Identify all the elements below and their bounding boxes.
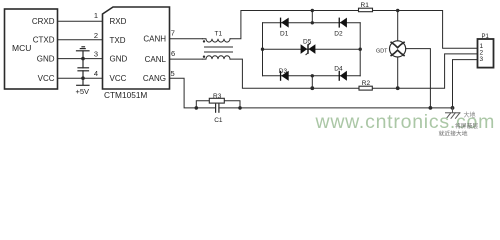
wire GDT center electrode to earth	[406, 49, 431, 108]
wire GND net	[58, 58, 103, 60]
capacitor C1 plates	[216, 104, 219, 112]
node junction bottom rail / bottom branch	[310, 86, 314, 90]
resistor R3 branch	[196, 101, 240, 108]
capacitor decoupling between GND and VCC	[78, 59, 89, 79]
wire CTXD-TXD	[58, 39, 103, 41]
node GND junction	[81, 57, 85, 61]
node junction bottom branch midpoint	[311, 74, 314, 77]
svg-text:T1: T1	[215, 31, 223, 38]
gas discharge tube GDT	[390, 41, 406, 57]
svg-text:将屏蔽层: 将屏蔽层	[455, 122, 478, 130]
svg-text:D3: D3	[279, 68, 288, 75]
wire VCC net	[58, 77, 103, 79]
resistor R2	[359, 86, 372, 90]
wire CANG pin5 to bottom net	[170, 78, 197, 108]
pin numbers P1	[480, 43, 484, 63]
diode bottom branch wire	[263, 75, 361, 77]
resistor R1	[359, 8, 373, 12]
svg-text:5: 5	[171, 69, 175, 78]
transceiver U CTM1051M box	[103, 7, 170, 89]
svg-text:GDT: GDT	[376, 48, 388, 54]
pin numbers CTM right	[171, 29, 176, 79]
svg-text:D2: D2	[334, 30, 343, 37]
svg-text:D4: D4	[334, 65, 343, 72]
pin numbers CTM left	[94, 11, 98, 78]
diode D3	[280, 71, 289, 81]
svg-text:CRXD: CRXD	[32, 17, 55, 26]
svg-text:7: 7	[171, 29, 175, 38]
diode D1	[280, 18, 289, 28]
node earth right junction	[238, 106, 242, 110]
node bottom rail GDT junction	[396, 86, 400, 90]
node junction right rail / middle branch	[359, 48, 362, 51]
node VCC junction	[81, 76, 85, 80]
T1 secondary phase dot	[203, 56, 205, 58]
transformer T1 secondary winding	[202, 56, 230, 59]
node junction top branch midpoint	[311, 21, 314, 24]
svg-text:2: 2	[94, 31, 98, 40]
svg-text:P1: P1	[482, 34, 490, 40]
node junction top rail / top branch	[311, 9, 314, 12]
node earth left junction	[195, 106, 199, 110]
wire earth line	[196, 107, 452, 109]
svg-text:GND: GND	[110, 55, 128, 64]
diode D2	[339, 18, 347, 28]
svg-text:MCU: MCU	[12, 43, 31, 53]
labels CTM right pins	[143, 35, 167, 83]
svg-text:CANG: CANG	[143, 74, 166, 83]
svg-text:+5V: +5V	[76, 87, 90, 96]
wire GDT top electrode	[397, 11, 399, 41]
svg-text:GND: GND	[37, 55, 55, 64]
ground symbol on GND net	[77, 47, 90, 59]
TVS diode D5 bidirectional	[301, 44, 316, 54]
wire top rail after R1	[373, 11, 478, 49]
wire CANH pin7	[170, 38, 203, 40]
svg-text:D1: D1	[280, 30, 289, 37]
svg-text:3: 3	[94, 49, 98, 58]
wire T1 top to CANH top rail	[230, 11, 359, 39]
svg-text:3: 3	[480, 56, 484, 63]
svg-text:VCC: VCC	[38, 74, 55, 83]
diode middle branch wire	[263, 48, 361, 50]
svg-text:CTM1051M: CTM1051M	[104, 90, 147, 100]
transformer T1 core	[205, 46, 233, 48]
diode D4	[339, 71, 347, 81]
wire pin3 riser from earth	[453, 60, 478, 108]
node junction left rail / middle branch	[261, 48, 264, 51]
node earth pin3 junction	[451, 106, 455, 110]
svg-text:CTXD: CTXD	[33, 36, 55, 45]
wire bottom rail after R2 to P1 pin2	[372, 54, 477, 88]
connector P1 box	[478, 39, 494, 68]
wire CANL pin6	[170, 58, 203, 60]
wire stub top rail to top branch	[311, 11, 313, 23]
svg-text:CANH: CANH	[143, 35, 166, 44]
T1 primary phase dot	[203, 40, 205, 42]
power +5V symbol	[77, 78, 89, 85]
svg-text:R1: R1	[361, 2, 370, 9]
wire T1 bottom to CANL bottom rail	[230, 59, 359, 88]
svg-text:TXD: TXD	[110, 36, 126, 45]
diode top branch wire	[263, 22, 361, 24]
svg-text:C1: C1	[214, 117, 223, 124]
labels MCU pins	[32, 17, 55, 83]
transformer T1 primary winding	[202, 39, 230, 42]
svg-text:CANL: CANL	[145, 55, 167, 64]
svg-text:4: 4	[94, 69, 98, 78]
svg-text:就近接大地: 就近接大地	[439, 130, 468, 138]
svg-text:6: 6	[171, 49, 175, 58]
svg-text:R3: R3	[213, 93, 222, 100]
wire CRXD-RXD	[58, 20, 103, 22]
MCU U-left box	[5, 9, 58, 89]
svg-text:1: 1	[94, 11, 98, 20]
wire GDT bottom electrode	[397, 57, 399, 88]
chassis earth symbol	[446, 108, 461, 118]
wire stub bottom branch to bottom rail	[311, 76, 313, 88]
svg-text:大地: 大地	[464, 111, 476, 119]
node top rail GDT junction	[396, 9, 399, 12]
node earth line GDT junction	[429, 106, 433, 110]
svg-text:R2: R2	[362, 80, 371, 87]
svg-text:D5: D5	[303, 38, 312, 45]
diode network right rail	[359, 23, 361, 76]
svg-text:VCC: VCC	[110, 74, 127, 83]
diode network left rail	[262, 23, 264, 76]
svg-text:RXD: RXD	[110, 17, 127, 26]
